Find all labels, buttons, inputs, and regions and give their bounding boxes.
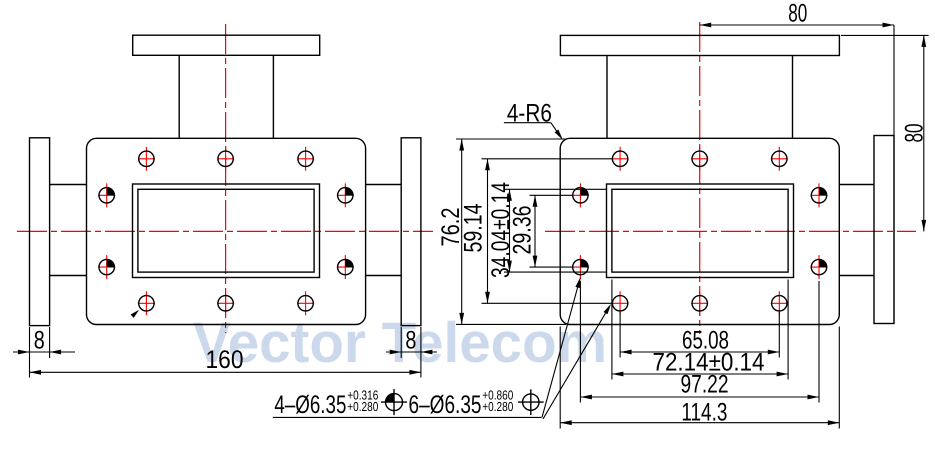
right view flange body [560, 138, 839, 324]
svg-text:59.14: 59.14 [459, 204, 487, 253]
dimension 72.14±0.14 [611, 280, 613, 380]
right view waveguide stem [606, 56, 608, 139]
right view right side flange plate [874, 136, 894, 324]
right view middle holes with filled quadrant [573, 188, 588, 203]
left view middle holes with filled quadrant [99, 188, 114, 203]
dimension 80 right [841, 34, 929, 36]
left view aperture outer rect [133, 184, 320, 278]
svg-text:160: 160 [206, 346, 244, 374]
dimension 97.22 [579, 281, 581, 403]
svg-text:6–Ø6.35: 6–Ø6.35 [409, 391, 482, 419]
centerline horizontal left view [17, 230, 433, 232]
centerline vertical left view [225, 24, 227, 333]
left view top mounting plate [133, 35, 320, 55]
dimension 8 left [29, 327, 31, 378]
svg-text:Vector Telecom: Vector Telecom [193, 311, 607, 375]
left view left stub [50, 184, 87, 186]
svg-text:8: 8 [405, 326, 416, 354]
right view bolt holes bottom row [612, 296, 627, 311]
dimension 76.2 [456, 138, 566, 140]
dimension 114.3 [559, 327, 561, 429]
dimension 160 [30, 371, 421, 373]
svg-text:29.36: 29.36 [508, 206, 536, 255]
svg-text:80: 80 [900, 124, 928, 143]
left view bolt holes top row [139, 151, 154, 166]
svg-text:114.3: 114.3 [681, 398, 727, 426]
centerline vertical right view [699, 22, 701, 334]
left view flange body [87, 138, 366, 324]
svg-text:80: 80 [788, 0, 807, 28]
left view right side flange plate [401, 138, 421, 326]
hole symbol filled quadrant [386, 394, 403, 411]
svg-text:8: 8 [34, 327, 45, 355]
svg-text:+0.280: +0.280 [347, 399, 378, 414]
dimension 8 right [400, 327, 402, 358]
label underline leader [273, 416, 542, 418]
dimension 34.04±0.14 [504, 188, 607, 190]
left view bolt holes bottom row [139, 296, 154, 311]
svg-text:4-R6: 4-R6 [507, 100, 552, 128]
left view left side flange plate [30, 138, 50, 326]
dimension 65.08 [619, 312, 621, 358]
dimension 59.14 [482, 158, 613, 160]
right view aperture inner rect [612, 189, 788, 272]
svg-text:+0.280: +0.280 [482, 399, 513, 414]
dimension 29.36 [530, 194, 573, 196]
right view top mounting plate [560, 35, 839, 55]
leader arrowhead to left view bottom-left hole [131, 310, 140, 318]
leader to middle hole [542, 288, 578, 418]
right view aperture outer rect [607, 184, 794, 278]
right view right stub [839, 184, 874, 186]
left view aperture inner rect [138, 189, 314, 272]
centerline horizontal right view [545, 230, 916, 232]
left view right stub [366, 184, 402, 186]
hole symbol plain [523, 394, 539, 410]
svg-text:4–Ø6.35: 4–Ø6.35 [274, 391, 346, 419]
svg-text:97.22: 97.22 [681, 370, 729, 398]
dimension 80 top [893, 25, 895, 324]
right view bolt holes top row [612, 151, 627, 166]
red hole center crosses [138, 158, 155, 160]
leader to bottom-left hole [543, 313, 606, 419]
left view waveguide stem [178, 55, 180, 138]
